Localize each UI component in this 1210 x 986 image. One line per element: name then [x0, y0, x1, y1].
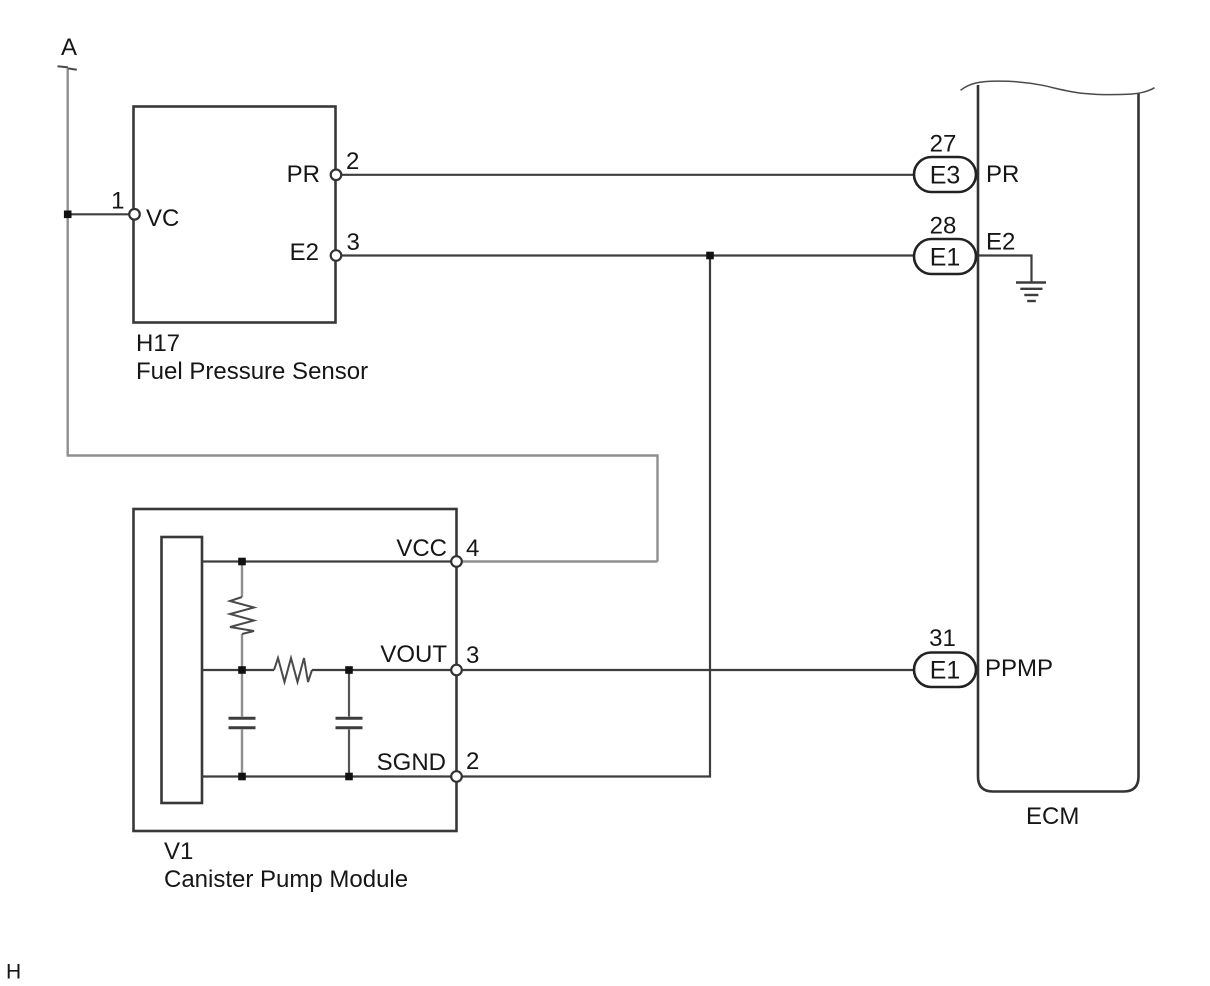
- svg-text:3: 3: [466, 642, 479, 669]
- svg-text:PPMP: PPMP: [985, 655, 1053, 682]
- svg-text:A: A: [61, 34, 77, 61]
- svg-text:31: 31: [929, 625, 956, 652]
- svg-text:VOUT: VOUT: [380, 641, 447, 668]
- svg-text:3: 3: [347, 229, 360, 256]
- svg-text:Canister Pump Module: Canister Pump Module: [164, 866, 408, 893]
- svg-text:1: 1: [111, 188, 124, 215]
- svg-text:PR: PR: [287, 161, 320, 188]
- svg-text:V1: V1: [164, 838, 193, 865]
- svg-text:ECM: ECM: [1026, 803, 1079, 830]
- svg-text:2: 2: [346, 148, 359, 175]
- svg-text:Fuel Pressure Sensor: Fuel Pressure Sensor: [136, 358, 368, 385]
- svg-text:E1: E1: [930, 244, 961, 272]
- svg-text:E2: E2: [290, 239, 319, 266]
- svg-text:4: 4: [466, 535, 479, 562]
- svg-text:E1: E1: [930, 657, 961, 685]
- svg-text:SGND: SGND: [377, 749, 446, 776]
- svg-text:PR: PR: [986, 161, 1019, 188]
- svg-text:E2: E2: [986, 229, 1015, 256]
- svg-text:2: 2: [466, 748, 479, 775]
- svg-text:28: 28: [930, 213, 957, 240]
- svg-text:VC: VC: [146, 205, 179, 232]
- svg-text:H17: H17: [136, 330, 180, 357]
- svg-text:E3: E3: [930, 162, 961, 190]
- svg-text:VCC: VCC: [396, 535, 447, 562]
- svg-text:27: 27: [930, 131, 957, 158]
- svg-text:H: H: [6, 961, 21, 984]
